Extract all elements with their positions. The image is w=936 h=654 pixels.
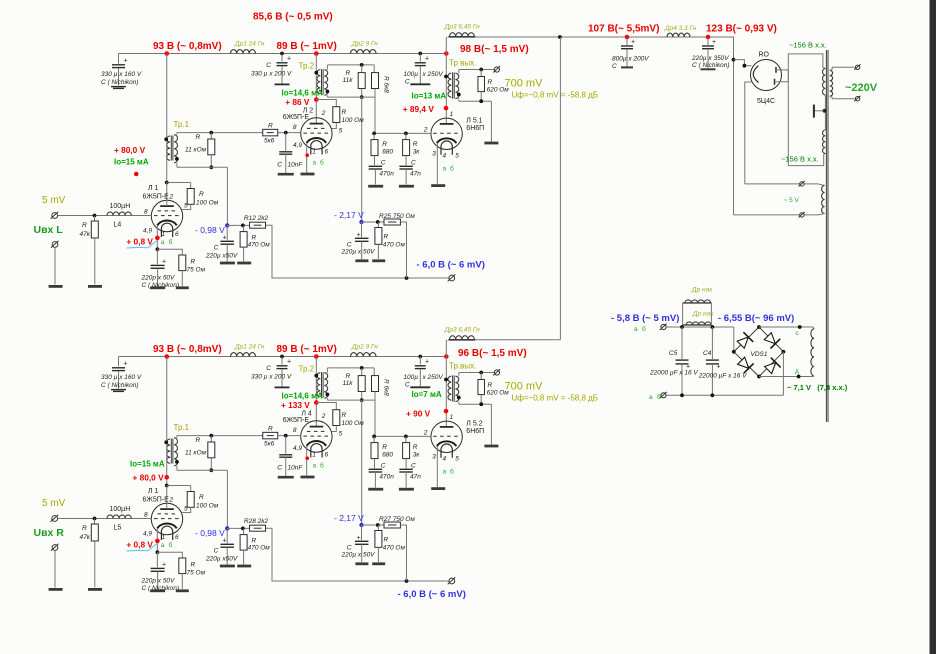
svg-text:1: 1 bbox=[162, 231, 166, 238]
svg-text:R: R bbox=[382, 141, 387, 148]
svg-text:100 Ом: 100 Ом bbox=[196, 200, 219, 207]
svg-text:+: + bbox=[712, 39, 716, 46]
resistor R 470 Om first bbox=[227, 527, 249, 529]
svg-text:5: 5 bbox=[455, 456, 459, 463]
svg-text:а: а bbox=[313, 160, 317, 167]
svg-text:б: б bbox=[169, 541, 173, 549]
node cap330x200 bbox=[280, 52, 284, 56]
right frame bar bbox=[930, 0, 936, 654]
svg-text:10nF: 10nF bbox=[288, 465, 304, 472]
svg-text:5: 5 bbox=[455, 153, 459, 160]
resistor R 11 kOm bbox=[176, 436, 178, 438]
svg-text:5к6: 5к6 bbox=[264, 138, 275, 145]
node +89.4V bbox=[444, 409, 449, 414]
svg-text:85,6 В (~ 0,5 mV): 85,6 В (~ 0,5 mV) bbox=[253, 12, 333, 23]
svg-text:R: R bbox=[346, 373, 351, 380]
svg-text:R: R bbox=[252, 235, 257, 242]
svg-text:220µ x 350V: 220µ x 350V bbox=[691, 55, 729, 62]
svg-text:+ 80,0 V: + 80,0 V bbox=[133, 473, 165, 483]
cathode network L1 +0.8V bbox=[156, 225, 158, 249]
capacitor 220p x 50V bbox=[156, 249, 158, 264]
wire to cathode bbox=[734, 60, 752, 66]
svg-text:+ 80,0 V: + 80,0 V bbox=[114, 145, 146, 155]
resistor R 100 Om anode L2 bbox=[316, 403, 336, 410]
svg-text:Uвх R: Uвх R bbox=[34, 527, 65, 539]
terminal 220V a bbox=[855, 65, 859, 69]
svg-text:100µ: 100µ bbox=[403, 71, 418, 78]
wire R25 to -6V rail bbox=[400, 525, 406, 581]
svg-text:107 В(~ 5,5mV): 107 В(~ 5,5mV) bbox=[588, 24, 659, 35]
cathode network L1 +0.8V bbox=[156, 528, 158, 552]
svg-text:C ( Nichikon): C ( Nichikon) bbox=[142, 282, 180, 289]
svg-text:2: 2 bbox=[423, 127, 428, 134]
svg-text:220р x 50V: 220р x 50V bbox=[141, 578, 176, 585]
terminal -6V bbox=[449, 275, 455, 281]
terminal heater bus bbox=[661, 324, 666, 329]
capacitor C 220u x 50V second bbox=[361, 222, 363, 237]
resistor R 3k bbox=[405, 436, 407, 442]
svg-text:10nF: 10nF bbox=[288, 162, 304, 169]
svg-text:R 6к8: R 6к8 bbox=[383, 76, 390, 93]
svg-text:700 mV: 700 mV bbox=[505, 78, 544, 90]
svg-text:R: R bbox=[384, 537, 389, 544]
grid wire L5 bbox=[374, 132, 431, 134]
node cathode bbox=[156, 550, 160, 554]
long wire to -2.17V bbox=[361, 97, 363, 222]
wire B+ rail R channel 93V bbox=[119, 356, 448, 358]
svg-text:100 Ом: 100 Ом bbox=[342, 117, 365, 124]
svg-text:R: R bbox=[488, 79, 493, 86]
svg-text:R: R bbox=[191, 562, 196, 569]
svg-text:330 µ x 200 V: 330 µ x 200 V bbox=[251, 374, 292, 381]
svg-text:4,9: 4,9 bbox=[293, 445, 302, 452]
wire heater bus bbox=[666, 326, 734, 328]
svg-text:47k: 47k bbox=[80, 534, 91, 541]
svg-text:3к: 3к bbox=[413, 149, 421, 156]
wire B+ drop to bottom channel bbox=[559, 37, 561, 340]
svg-text:800µ x 200V: 800µ x 200V bbox=[612, 56, 649, 63]
node 89V bbox=[314, 51, 319, 56]
wire bus to bridge left bbox=[733, 327, 735, 352]
svg-text:R: R bbox=[82, 222, 87, 229]
long wire to -2.17V bbox=[361, 400, 363, 525]
svg-text:R: R bbox=[268, 123, 273, 130]
svg-text:C: C bbox=[612, 63, 617, 70]
wire B+ rail L channel 93V bbox=[119, 53, 448, 55]
channel R bottom bbox=[34, 327, 599, 601]
svg-text:+: + bbox=[223, 538, 227, 545]
svg-text:+ 0,8 V: + 0,8 V bbox=[126, 237, 153, 247]
svg-text:R27 750 Ом: R27 750 Ом bbox=[379, 516, 415, 523]
wire bridge top to winding bbox=[759, 326, 813, 328]
svg-text:+: + bbox=[425, 56, 429, 63]
input terminal 2 bbox=[52, 545, 58, 551]
svg-text:6: 6 bbox=[175, 231, 179, 238]
svg-text:R: R bbox=[382, 444, 387, 451]
wire rail to rectifier bbox=[733, 37, 736, 215]
svg-text:R: R bbox=[268, 426, 273, 433]
svg-text:а: а bbox=[649, 394, 653, 401]
node branch to R channel bbox=[558, 35, 562, 39]
svg-text:C: C bbox=[347, 545, 352, 552]
wire feedback to -0.98V node bbox=[226, 167, 228, 225]
svg-text:5 mV: 5 mV bbox=[42, 195, 66, 206]
diode bottom-left bbox=[736, 356, 753, 373]
svg-text:100 Ом: 100 Ом bbox=[342, 420, 365, 427]
svg-text:4,9: 4,9 bbox=[143, 530, 152, 537]
resistor R 470 Om second bbox=[362, 524, 385, 526]
capacitor C 100u x 250V bbox=[419, 357, 421, 365]
output terminal bbox=[494, 67, 499, 72]
svg-text:+: + bbox=[357, 535, 361, 542]
inductor L4 100uH bbox=[107, 515, 131, 519]
output terminal bbox=[494, 370, 499, 375]
node 93V bbox=[164, 51, 169, 56]
svg-text:Тр.1: Тр.1 bbox=[174, 423, 190, 432]
wire Tr1 secondary bottom bbox=[176, 466, 178, 471]
svg-text:6Н6П: 6Н6П bbox=[466, 428, 484, 435]
node rect out bbox=[732, 58, 736, 62]
svg-text:47n: 47n bbox=[410, 171, 421, 178]
svg-text:+: + bbox=[223, 235, 227, 242]
svg-text:R: R bbox=[342, 109, 347, 116]
cathode L2 bbox=[306, 143, 308, 173]
ground bbox=[88, 588, 102, 591]
capacitor C 10nF bbox=[285, 436, 287, 454]
svg-text:б: б bbox=[450, 468, 454, 476]
resistor R 47k bbox=[93, 517, 97, 521]
svg-text:Др2 9 Гн: Др2 9 Гн bbox=[351, 41, 378, 48]
power transformer 220V primary bbox=[830, 70, 833, 96]
cathode L5 to ground bbox=[436, 143, 438, 184]
svg-text:+: + bbox=[162, 562, 166, 569]
svg-text:C: C bbox=[214, 245, 219, 252]
bridge rectifier VDS1 bbox=[734, 327, 784, 377]
choke Dr2 9Gn bbox=[351, 50, 377, 54]
heater winding 6.3V bbox=[812, 327, 815, 329]
svg-text:C: C bbox=[405, 79, 410, 86]
svg-text:Др1 24 Гн: Др1 24 Гн bbox=[234, 344, 265, 351]
node +89.4V bbox=[444, 106, 449, 111]
svg-text:220µ x 50V: 220µ x 50V bbox=[341, 249, 376, 256]
svg-text:R25 750 Ом: R25 750 Ом bbox=[379, 213, 415, 220]
resistor R 470 Om first bbox=[227, 224, 249, 226]
svg-text:75 Ом: 75 Ом bbox=[187, 570, 206, 577]
svg-text:1: 1 bbox=[162, 534, 166, 541]
svg-text:Io=15 мА: Io=15 мА bbox=[114, 158, 149, 167]
svg-text:C: C bbox=[347, 242, 352, 249]
terminal 220V b bbox=[855, 97, 859, 101]
svg-text:5 mV: 5 mV bbox=[42, 498, 66, 509]
resistor R 100 Om anode L1 bbox=[167, 485, 191, 487]
svg-text:220р x 50V: 220р x 50V bbox=[141, 275, 176, 282]
svg-text:C: C bbox=[277, 465, 282, 472]
wire Tr2 secondary bottom bbox=[326, 398, 328, 400]
resistor R25 750 Om bbox=[384, 219, 400, 225]
svg-text:б: б bbox=[450, 165, 454, 173]
svg-text:22000 µF x 16 V: 22000 µF x 16 V bbox=[698, 373, 747, 380]
node 89V bbox=[314, 354, 319, 359]
svg-text:Тр.1: Тр.1 bbox=[174, 120, 190, 129]
node -2.17V bbox=[359, 523, 363, 527]
svg-text:~220V: ~220V bbox=[845, 82, 878, 94]
capacitor 220u x 350V bbox=[707, 37, 709, 45]
svg-text:д: д bbox=[795, 368, 799, 375]
svg-text:C: C bbox=[277, 162, 282, 169]
svg-text:x 250V: x 250V bbox=[422, 71, 444, 78]
svg-text:+ 0,8 V: + 0,8 V bbox=[126, 540, 153, 550]
svg-text:- 6,0 В (~ 6 mV): - 6,0 В (~ 6 mV) bbox=[398, 589, 466, 600]
svg-text:+: + bbox=[162, 259, 166, 266]
node +80V bbox=[164, 475, 169, 480]
svg-text:Тр.2: Тр.2 bbox=[299, 365, 315, 374]
svg-text:R12 2k2: R12 2k2 bbox=[244, 215, 269, 222]
svg-text:6Ж5П-Е: 6Ж5П-Е bbox=[283, 114, 310, 121]
node -6V bbox=[405, 276, 409, 280]
svg-text:а: а bbox=[161, 239, 165, 246]
svg-text:Др1 24 Гн: Др1 24 Гн bbox=[234, 41, 265, 48]
resistor R 6k8 bbox=[373, 65, 375, 73]
svg-text:б: б bbox=[169, 238, 173, 246]
svg-text:а: а bbox=[443, 166, 447, 173]
resistor R 100 Om anode L1 bbox=[167, 182, 191, 184]
cathode L5 to ground bbox=[436, 446, 438, 487]
svg-text:89 В (~ 1mV): 89 В (~ 1mV) bbox=[277, 344, 337, 355]
input terminal 2 bbox=[52, 242, 58, 248]
wire to -6V rail bbox=[266, 528, 449, 581]
capacitor C 330u x 200V bbox=[281, 357, 283, 365]
wire bridge right to rail bbox=[782, 352, 784, 396]
wire cathode bottom down bbox=[745, 82, 752, 184]
svg-text:100µН: 100µН bbox=[110, 203, 131, 210]
capacitor C 220u x 50V second bbox=[361, 525, 363, 540]
ground bbox=[88, 285, 102, 288]
svg-text:220µ x50V: 220µ x50V bbox=[205, 556, 238, 563]
svg-text:Тр.2: Тр.2 bbox=[299, 62, 315, 71]
svg-text:+: + bbox=[717, 364, 721, 371]
resistor R 5k6 bbox=[263, 129, 278, 136]
wire feedback to -0.98V node bbox=[226, 470, 228, 528]
wire R25 to -6V rail bbox=[400, 222, 406, 278]
svg-text:C ( Nichikon): C ( Nichikon) bbox=[692, 62, 730, 69]
svg-text:11 кОм: 11 кОм bbox=[185, 147, 207, 154]
wire heater return rail bbox=[666, 394, 783, 396]
svg-text:47n: 47n bbox=[410, 474, 421, 481]
svg-text:680: 680 bbox=[382, 452, 393, 459]
node cap330x200 bbox=[280, 355, 284, 359]
node cathode bbox=[156, 247, 160, 251]
svg-text:3к: 3к bbox=[413, 452, 421, 459]
svg-text:Io=13 мА: Io=13 мА bbox=[412, 92, 447, 101]
svg-text:100µ: 100µ bbox=[403, 374, 418, 381]
wire secondary bottom to ground bbox=[458, 99, 460, 102]
svg-text:+: + bbox=[425, 359, 429, 366]
svg-text:100 Ом: 100 Ом bbox=[196, 503, 219, 510]
svg-text:Uф=~0,8 mV = -58,8 дБ: Uф=~0,8 mV = -58,8 дБ bbox=[512, 394, 599, 403]
svg-text:4,9: 4,9 bbox=[143, 227, 152, 234]
dot marker bbox=[134, 172, 139, 177]
node +86V anode L2 bbox=[314, 97, 319, 102]
svg-text:R: R bbox=[252, 538, 257, 545]
svg-text:1: 1 bbox=[312, 452, 316, 459]
svg-text:R: R bbox=[199, 191, 204, 198]
svg-text:+: + bbox=[124, 361, 128, 368]
svg-text:L4: L4 bbox=[114, 222, 122, 229]
svg-text:5к6: 5к6 bbox=[264, 441, 275, 448]
node -2.17V bbox=[359, 220, 363, 224]
wire HV loop bbox=[788, 54, 825, 82]
ground bbox=[484, 445, 498, 448]
svg-text:2: 2 bbox=[423, 430, 428, 437]
svg-text:2: 2 bbox=[321, 413, 326, 420]
svg-text:4: 4 bbox=[443, 456, 447, 463]
choke Dr4 3.3Gn bbox=[667, 33, 690, 37]
svg-text:6Ж5П-Е: 6Ж5П-Е bbox=[143, 194, 170, 201]
svg-text:RO: RO bbox=[759, 52, 770, 59]
svg-text:- 0,98 V: - 0,98 V bbox=[195, 528, 225, 538]
svg-text:+: + bbox=[357, 232, 361, 239]
svg-text:+: + bbox=[631, 39, 635, 46]
svg-text:- 6,55 В(~ 96 mV): - 6,55 В(~ 96 mV) bbox=[718, 313, 794, 324]
ground bbox=[49, 285, 63, 288]
svg-text:Др3 6,45 Гн: Др3 6,45 Гн bbox=[444, 24, 480, 31]
svg-text:а: а bbox=[161, 542, 165, 549]
wire to -6V rail bbox=[266, 225, 449, 278]
svg-text:C4: C4 bbox=[703, 350, 712, 357]
svg-text:+: + bbox=[287, 56, 291, 63]
svg-text:75 Ом: 75 Ом bbox=[187, 267, 206, 274]
svg-text:Др2 9 Гн: Др2 9 Гн bbox=[351, 344, 378, 351]
tube L2 6Zh5P-E bbox=[301, 421, 332, 452]
resistor R25 750 Om bbox=[384, 522, 400, 528]
svg-text:Др3 6,45 Гн: Др3 6,45 Гн bbox=[444, 327, 480, 334]
resistor R 680 bbox=[373, 133, 375, 139]
svg-text:93 В (~ 0,8mV): 93 В (~ 0,8mV) bbox=[153, 344, 222, 355]
svg-text:Тр.вых.: Тр.вых. bbox=[449, 362, 476, 371]
svg-text:~156 В х.х.: ~156 В х.х. bbox=[781, 155, 819, 164]
svg-text:R: R bbox=[196, 437, 201, 444]
svg-text:Др4 3,3 Гн: Др4 3,3 Гн bbox=[664, 25, 697, 32]
node -6V bbox=[405, 579, 409, 583]
grid wire L5 bbox=[374, 435, 431, 437]
svg-text:R: R bbox=[488, 382, 493, 389]
resistor R 100 Om anode L2 bbox=[316, 100, 336, 107]
svg-text:R: R bbox=[199, 494, 204, 501]
svg-text:- 5,8 В (~ 5 mV): - 5,8 В (~ 5 mV) bbox=[611, 313, 679, 324]
svg-text:R: R bbox=[413, 444, 418, 451]
svg-text:5: 5 bbox=[339, 431, 343, 438]
svg-text:5Ц4С: 5Ц4С bbox=[757, 98, 775, 105]
resistor R 6k8 bbox=[373, 368, 375, 376]
svg-text:C5: C5 bbox=[669, 350, 678, 357]
svg-text:6: 6 bbox=[175, 534, 179, 541]
svg-text:C: C bbox=[266, 62, 271, 69]
svg-text:6Ж5П-Е: 6Ж5П-Е bbox=[143, 497, 170, 504]
svg-text:Др нак: Др нак bbox=[691, 287, 713, 294]
svg-text:93 В (~ 0,8mV): 93 В (~ 0,8mV) bbox=[153, 41, 222, 52]
capacitor C 47n bbox=[399, 468, 413, 470]
svg-text:470 Ом: 470 Ом bbox=[383, 545, 406, 552]
svg-text:+: + bbox=[124, 58, 128, 65]
node 93V bbox=[164, 354, 169, 359]
choke box sides bbox=[682, 303, 684, 327]
svg-text:R: R bbox=[82, 525, 87, 532]
power transformer HV winding bbox=[822, 69, 825, 96]
node 98V bbox=[444, 354, 449, 359]
cyan marker wave bbox=[127, 544, 158, 552]
inductor L4 100uH bbox=[107, 212, 131, 216]
svg-text:Io=15 мА: Io=15 мА bbox=[130, 460, 165, 469]
capacitor C 220u x 50V cathode1 bbox=[226, 528, 228, 543]
svg-text:- 0,98 V: - 0,98 V bbox=[195, 225, 225, 235]
resistor R 11 kOm bbox=[176, 133, 178, 135]
capacitor C 330u x 160V bbox=[118, 357, 120, 367]
svg-text:Uф=~0,8 mV = -58,8 дБ: Uф=~0,8 mV = -58,8 дБ bbox=[512, 91, 599, 100]
choke Dr1 24Gn bbox=[231, 50, 256, 54]
svg-text:3: 3 bbox=[432, 454, 436, 461]
choke Dr2 9Gn bbox=[351, 353, 377, 357]
svg-text:R28 2k2: R28 2k2 bbox=[244, 518, 269, 525]
node 98V bbox=[444, 51, 449, 56]
svg-text:680: 680 bbox=[382, 149, 393, 156]
svg-text:+ 133 V: + 133 V bbox=[281, 400, 310, 410]
ground bbox=[49, 588, 63, 591]
svg-text:C: C bbox=[411, 463, 416, 470]
svg-text:Л 1: Л 1 bbox=[148, 488, 159, 495]
svg-text:C ( Nichikon): C ( Nichikon) bbox=[101, 79, 139, 86]
svg-text:R: R bbox=[196, 134, 201, 141]
svg-text:- 2,17 V: - 2,17 V bbox=[334, 513, 364, 523]
svg-text:470n: 470n bbox=[379, 171, 394, 178]
svg-text:R: R bbox=[384, 234, 389, 241]
tube L1 input pentode 6Zh5P-E bbox=[151, 200, 182, 231]
svg-text:700 mV: 700 mV bbox=[505, 381, 544, 393]
svg-text:470 Ом: 470 Ом bbox=[383, 242, 406, 249]
node -0.98V bbox=[225, 223, 229, 227]
svg-text:8: 8 bbox=[144, 208, 148, 215]
svg-text:R: R bbox=[342, 412, 347, 419]
input terminal bbox=[52, 516, 58, 522]
svg-text:Л 5.1: Л 5.1 bbox=[466, 118, 482, 125]
svg-text:98 В(~ 1,5 mV): 98 В(~ 1,5 mV) bbox=[460, 44, 529, 55]
capacitor C 10nF bbox=[285, 133, 287, 151]
svg-text:C: C bbox=[266, 365, 271, 372]
wire Tr1 secondary bottom bbox=[176, 163, 178, 168]
svg-text:6: 6 bbox=[325, 149, 329, 156]
capacitor C 330u x 160V bbox=[118, 54, 120, 64]
svg-text:330 µ x 160 V: 330 µ x 160 V bbox=[101, 374, 142, 381]
svg-text:Тр вых.: Тр вых. bbox=[449, 59, 476, 68]
diode top-right bbox=[763, 331, 780, 348]
node +86V anode L2 bbox=[314, 400, 319, 405]
svg-text:R: R bbox=[191, 259, 196, 266]
svg-text:- 2,17 V: - 2,17 V bbox=[334, 210, 364, 220]
tube L5 6N6P bbox=[431, 421, 462, 452]
svg-text:4: 4 bbox=[443, 153, 447, 160]
svg-text:~ 5 V: ~ 5 V bbox=[784, 197, 800, 204]
capacitor C5 22000uF bbox=[681, 327, 683, 359]
svg-text:R: R bbox=[413, 141, 418, 148]
svg-text:2: 2 bbox=[321, 110, 326, 117]
svg-text:C ( Nichikon): C ( Nichikon) bbox=[101, 382, 139, 389]
resistor R 47k bbox=[93, 214, 97, 218]
svg-text:+: + bbox=[287, 359, 291, 366]
resistor R 5k6 bbox=[263, 432, 278, 439]
wire bottom Dr3 to drop bbox=[475, 339, 560, 341]
svg-text:а: а bbox=[443, 469, 447, 476]
wire bridge bottom to winding bbox=[759, 376, 813, 378]
capacitor C 470n bbox=[369, 165, 383, 167]
